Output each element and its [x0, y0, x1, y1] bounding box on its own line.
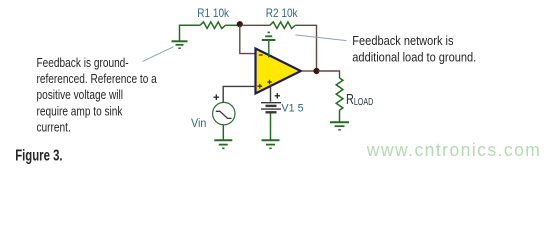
- ground (top-left): [172, 41, 188, 48]
- wire battery to ground: [270, 114, 272, 141]
- label Vin: [191, 118, 206, 131]
- label RLOAD: [346, 90, 373, 107]
- svg-text:Feedback network isadditional: Feedback network isadditional load to gr…: [352, 33, 476, 64]
- op-amp U1: [256, 49, 301, 94]
- label R2 10k: [266, 8, 298, 21]
- label R1 10k: [197, 8, 229, 21]
- svg-text:R1 10k: R1 10k: [197, 8, 229, 21]
- wire RLOAD to ground: [339, 110, 341, 122]
- ground (Vin): [214, 140, 232, 148]
- svg-text:www.cntronics.com: www.cntronics.com: [366, 139, 542, 160]
- annotation left: [37, 57, 158, 135]
- callout line (right annotation to output node): [295, 35, 346, 41]
- wire node A to op-amp inverting input: [240, 26, 256, 54]
- ground (RLOAD): [330, 122, 349, 130]
- ground (battery): [262, 140, 280, 148]
- op-amp U1 plus label (power pin): [267, 80, 271, 84]
- wire Vin to ground: [222, 125, 224, 140]
- callout line (left annotation to ground): [143, 47, 174, 62]
- wire R2 to output node: [295, 25, 316, 68]
- label V1 5: [281, 102, 303, 114]
- wire node OUT to RLOAD: [318, 71, 340, 78]
- op-amp U1 V+ pin (to battery): [270, 85, 272, 102]
- inverted ground above op-amp: [262, 32, 276, 40]
- node OUT (output junction): [313, 68, 319, 74]
- wire R1 to node A: [225, 24, 238, 26]
- svg-text:Figure 3.: Figure 3.: [15, 147, 62, 164]
- svg-text:R2 10k: R2 10k: [266, 8, 298, 21]
- battery V1: [261, 103, 281, 113]
- battery V1 plus label: [275, 93, 280, 98]
- svg-text:RLOAD: RLOAD: [346, 90, 373, 107]
- wire Vin to op-amp non-inverting input: [223, 86, 255, 102]
- source Vin: [213, 102, 235, 124]
- wire from ground to R1: [180, 25, 201, 41]
- wire op-amp output to node OUT: [302, 70, 314, 72]
- op-amp U1 minus label: [259, 54, 263, 56]
- source Vin waveform: [216, 111, 232, 118]
- source Vin plus label: [214, 94, 220, 100]
- resistor RLOAD: [336, 78, 343, 110]
- caption Figure 3.: [15, 147, 62, 164]
- resistor R2: [270, 22, 295, 29]
- op-amp U1 plus label (input): [257, 84, 262, 89]
- node A (junction R1/R2/feedback): [237, 21, 243, 27]
- svg-text:Vin: Vin: [191, 118, 206, 131]
- svg-text:V1 5: V1 5: [281, 102, 303, 114]
- svg-text:Feedback is ground-referenced.: Feedback is ground-referenced. Reference…: [37, 57, 158, 135]
- op-amp U1 V- pin (to inverted ground): [268, 41, 270, 58]
- watermark: [366, 139, 542, 160]
- annotation right: [352, 33, 476, 64]
- wire node A to R2: [242, 24, 270, 26]
- resistor R1: [200, 22, 225, 29]
